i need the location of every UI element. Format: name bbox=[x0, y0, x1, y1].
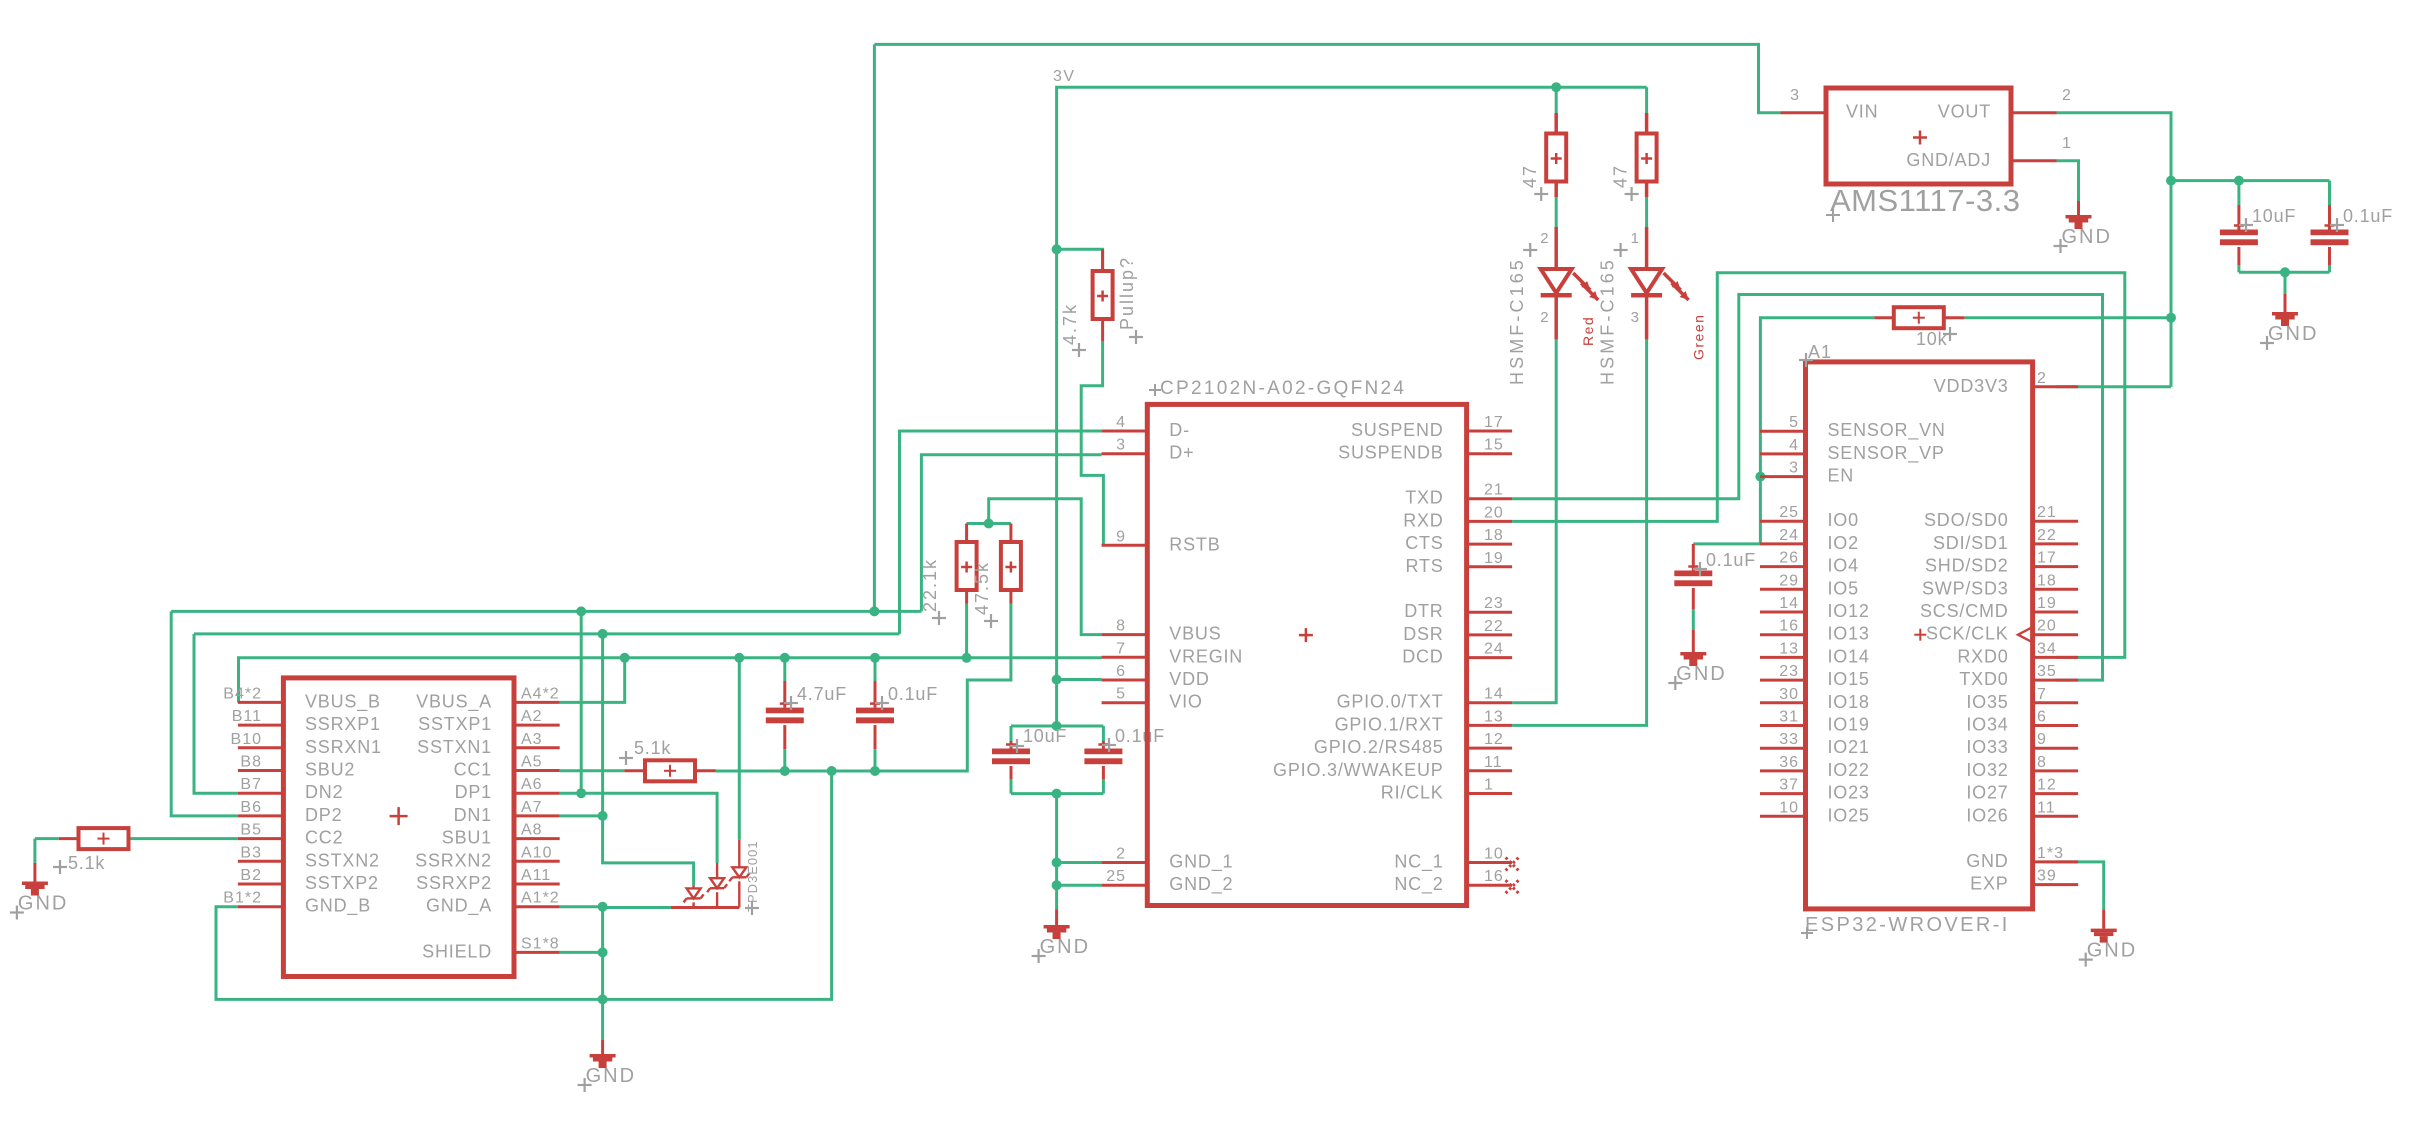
svg-text:SUSPENDB: SUSPENDB bbox=[1338, 443, 1443, 463]
svg-text:GND: GND bbox=[1040, 936, 1090, 958]
svg-text:NC_1: NC_1 bbox=[1394, 852, 1443, 873]
svg-text:31: 31 bbox=[1779, 709, 1799, 726]
svg-text:26: 26 bbox=[1779, 550, 1799, 567]
junction VDD bbox=[1052, 675, 1062, 685]
svg-text:14: 14 bbox=[1779, 595, 1799, 612]
svg-text:RI/CLK: RI/CLK bbox=[1381, 783, 1444, 803]
svg-text:GPIO.0/TXT: GPIO.0/TXT bbox=[1337, 692, 1444, 712]
svg-text:1: 1 bbox=[1484, 777, 1494, 794]
wire cap pair top bar bbox=[1011, 680, 1103, 727]
wire TXD to TXD0 bbox=[1512, 295, 2102, 681]
svg-text:6: 6 bbox=[1116, 663, 1126, 680]
svg-text:25: 25 bbox=[1779, 504, 1799, 521]
svg-text:19: 19 bbox=[2037, 595, 2057, 612]
svg-text:CC2: CC2 bbox=[305, 828, 343, 848]
svg-text:B8: B8 bbox=[240, 754, 262, 771]
svg-text:4.7k: 4.7k bbox=[1060, 303, 1080, 345]
svg-text:5.1k: 5.1k bbox=[68, 853, 105, 873]
svg-text:22: 22 bbox=[2037, 527, 2057, 544]
svg-text:Green: Green bbox=[1691, 314, 1707, 360]
svg-text:13: 13 bbox=[1779, 640, 1799, 657]
svg-text:SSTXP1: SSTXP1 bbox=[418, 714, 492, 734]
svg-text:SWP/SD3: SWP/SD3 bbox=[1922, 578, 2009, 598]
svg-text:10: 10 bbox=[1779, 799, 1799, 816]
svg-text:SHD/SD2: SHD/SD2 bbox=[1925, 556, 2009, 576]
label ESD diode name bbox=[745, 840, 760, 915]
svg-text:DP1: DP1 bbox=[455, 782, 492, 802]
svg-text:A3: A3 bbox=[521, 731, 543, 748]
wire GND_1 bbox=[1057, 861, 1102, 864]
svg-text:3: 3 bbox=[1116, 437, 1126, 454]
IC U2 AMS1117-3.3 bbox=[1781, 87, 2072, 222]
svg-text:DSR: DSR bbox=[1403, 624, 1443, 644]
wire VDD tap bbox=[1057, 678, 1102, 681]
junction cap top bar bbox=[1052, 721, 1062, 731]
svg-text:33: 33 bbox=[1779, 731, 1799, 748]
capacitor C 0.1uF (CP) bbox=[1084, 726, 1165, 794]
svg-text:SENSOR_VN: SENSOR_VN bbox=[1828, 420, 1946, 441]
svg-text:B6: B6 bbox=[240, 799, 262, 816]
svg-text:GPIO.1/RXT: GPIO.1/RXT bbox=[1335, 714, 1444, 734]
svg-text:47: 47 bbox=[1611, 164, 1631, 188]
wire VOUT riser bbox=[2170, 181, 2173, 387]
wire VOUT top bar bbox=[2171, 179, 2330, 182]
svg-text:18: 18 bbox=[1484, 527, 1504, 544]
wire DN1 net to ESD diode D1 bbox=[603, 816, 694, 886]
junction GND_2 bbox=[1052, 880, 1062, 890]
svg-text:5: 5 bbox=[1789, 414, 1799, 431]
wire D- net bbox=[900, 431, 1102, 634]
diode D2 ESD bbox=[707, 863, 727, 908]
wire EN cap drop bbox=[1693, 477, 1760, 544]
svg-text:ESP32-WROVER-I: ESP32-WROVER-I bbox=[1805, 914, 2010, 936]
svg-text:GND: GND bbox=[2087, 940, 2137, 962]
svg-text:21: 21 bbox=[2037, 504, 2057, 521]
capacitor C 0.1uF (EN) bbox=[1674, 544, 1756, 630]
svg-text:A8: A8 bbox=[521, 822, 543, 839]
svg-text:IO32: IO32 bbox=[1966, 760, 2008, 780]
svg-text:16: 16 bbox=[1779, 618, 1799, 635]
svg-text:IO13: IO13 bbox=[1828, 624, 1870, 644]
ground GND (out caps) bbox=[2260, 272, 2318, 350]
svg-text:GND: GND bbox=[2268, 323, 2318, 345]
junction 3V at LED1 column bbox=[1551, 82, 1561, 92]
svg-text:GND_1: GND_1 bbox=[1169, 852, 1233, 873]
wire pullup tap to R 4.7k bbox=[1057, 249, 1103, 271]
wire DP line y611 bbox=[171, 610, 921, 613]
resistor R 5.1k (CC2) bbox=[35, 828, 238, 874]
svg-text:TXD: TXD bbox=[1405, 488, 1443, 508]
wire RXD to RXD0 bbox=[1512, 273, 2125, 658]
svg-text:24: 24 bbox=[1484, 641, 1504, 658]
junction VBUS at C0.1uF bbox=[870, 653, 880, 663]
resistor R 47 (LED1) bbox=[1520, 87, 1566, 201]
svg-text:Red: Red bbox=[1580, 316, 1596, 346]
svg-text:IO22: IO22 bbox=[1828, 760, 1870, 780]
svg-text:HSMF-C165: HSMF-C165 bbox=[1507, 257, 1527, 385]
svg-text:1*3: 1*3 bbox=[2037, 845, 2064, 862]
junction DP1 at pin row bbox=[576, 788, 586, 798]
svg-text:21: 21 bbox=[1484, 482, 1504, 499]
svg-text:IO5: IO5 bbox=[1828, 578, 1859, 598]
junction CC1 line at shield riser bbox=[827, 766, 837, 776]
wire 3V rail bbox=[1057, 87, 1647, 249]
junction VBUS at A-riser bbox=[620, 653, 630, 663]
svg-text:SHIELD: SHIELD bbox=[422, 941, 492, 961]
svg-text:GND: GND bbox=[1966, 851, 2008, 871]
svg-text:20: 20 bbox=[1484, 504, 1504, 521]
svg-text:NC_2: NC_2 bbox=[1394, 874, 1443, 895]
svg-text:B11: B11 bbox=[232, 708, 262, 725]
svg-text:VIO: VIO bbox=[1169, 692, 1202, 712]
svg-text:TXD0: TXD0 bbox=[1959, 669, 2008, 689]
svg-text:29: 29 bbox=[1779, 572, 1799, 589]
junction x874 on y611 bbox=[869, 606, 879, 616]
svg-text:CTS: CTS bbox=[1405, 533, 1443, 553]
svg-text:2: 2 bbox=[1540, 230, 1549, 247]
svg-text:34: 34 bbox=[2037, 640, 2057, 657]
svg-text:IO2: IO2 bbox=[1828, 533, 1859, 553]
svg-text:12: 12 bbox=[2037, 777, 2057, 794]
svg-text:22.1k: 22.1k bbox=[920, 558, 940, 612]
svg-text:6: 6 bbox=[2037, 709, 2047, 726]
wire GND_B bottom line bbox=[216, 771, 832, 999]
svg-text:B7: B7 bbox=[240, 776, 262, 793]
wire SHIELD pin bbox=[560, 951, 603, 954]
svg-text:IO21: IO21 bbox=[1828, 737, 1870, 757]
svg-text:2: 2 bbox=[2062, 87, 2072, 104]
junction VBUS at R22.1k bbox=[962, 653, 972, 663]
wire VOUT to caps bbox=[2057, 113, 2172, 181]
wire R47 to LED2 bbox=[1645, 197, 1648, 227]
svg-text:4: 4 bbox=[1116, 414, 1126, 431]
resistor R 5.1k (CC1) bbox=[560, 738, 716, 781]
svg-text:RXD0: RXD0 bbox=[1957, 646, 2008, 666]
wire 3V riser down to VDD bbox=[1055, 249, 1058, 679]
svg-text:5: 5 bbox=[1116, 686, 1126, 703]
net label 3V bbox=[1053, 68, 1076, 85]
svg-text:VOUT: VOUT bbox=[1938, 102, 1991, 122]
svg-text:2: 2 bbox=[2037, 370, 2047, 387]
svg-text:A2: A2 bbox=[521, 708, 543, 725]
svg-text:DTR: DTR bbox=[1404, 601, 1443, 621]
svg-text:10uF: 10uF bbox=[1023, 726, 1067, 746]
svg-text:D-: D- bbox=[1169, 420, 1190, 440]
svg-text:S1*8: S1*8 bbox=[521, 935, 560, 952]
svg-text:SDI/SD1: SDI/SD1 bbox=[1933, 533, 2009, 553]
svg-text:DN1: DN1 bbox=[454, 805, 492, 825]
svg-text:23: 23 bbox=[1484, 595, 1504, 612]
svg-text:A5: A5 bbox=[521, 754, 543, 771]
svg-text:IO12: IO12 bbox=[1828, 601, 1870, 621]
wire GND_A to rail bbox=[560, 905, 603, 908]
svg-text:VBUS: VBUS bbox=[1169, 624, 1221, 644]
junction bottom gnd line bbox=[598, 994, 608, 1004]
svg-text:A10: A10 bbox=[521, 844, 552, 861]
capacitor C 10uF (CP) bbox=[992, 726, 1067, 794]
svg-text:18: 18 bbox=[2037, 572, 2057, 589]
svg-text:IO27: IO27 bbox=[1966, 783, 2008, 803]
resistor R 4.7k (Pullup?) bbox=[1060, 249, 1143, 357]
junction VBUS at D3 bbox=[734, 653, 744, 663]
wire out caps bottom bar bbox=[2239, 271, 2330, 274]
svg-text:A1*2: A1*2 bbox=[521, 890, 560, 907]
svg-text:11: 11 bbox=[1484, 754, 1503, 771]
capacitor C 0.1uF (USB) bbox=[856, 658, 938, 771]
IC A1 ESP32-WROVER-I bbox=[1760, 342, 2078, 939]
capacitor C 10uF (out) bbox=[2220, 181, 2296, 273]
ground GND (ESP32) bbox=[2079, 910, 2137, 967]
svg-text:3: 3 bbox=[1789, 460, 1799, 477]
svg-text:20: 20 bbox=[2037, 618, 2057, 635]
junction DN1 riser bbox=[598, 629, 608, 639]
junction 3V pullup tap bbox=[1052, 244, 1062, 254]
svg-text:30: 30 bbox=[1779, 686, 1799, 703]
LED LED2 HSMF-C165 bbox=[1598, 227, 1707, 385]
LED LED1 HSMF-C165 bbox=[1507, 227, 1598, 385]
wire R22k/R47k top bar bbox=[967, 499, 1102, 635]
svg-text:A11: A11 bbox=[521, 867, 551, 884]
svg-text:3: 3 bbox=[1631, 309, 1640, 326]
svg-text:SCS/CMD: SCS/CMD bbox=[1920, 601, 2009, 621]
svg-text:36: 36 bbox=[1779, 754, 1799, 771]
svg-text:8: 8 bbox=[2037, 754, 2047, 771]
svg-text:2: 2 bbox=[1116, 846, 1126, 863]
svg-text:14: 14 bbox=[1484, 686, 1504, 703]
svg-text:IO26: IO26 bbox=[1966, 805, 2008, 825]
svg-text:SSTXN2: SSTXN2 bbox=[305, 850, 380, 870]
svg-text:VIN: VIN bbox=[1846, 102, 1878, 122]
svg-text:EXP: EXP bbox=[1970, 874, 2008, 894]
junction EN bbox=[1755, 472, 1765, 482]
svg-text:24: 24 bbox=[1779, 527, 1799, 544]
svg-text:1: 1 bbox=[1631, 230, 1640, 247]
svg-text:DN2: DN2 bbox=[305, 782, 343, 802]
svg-text:1: 1 bbox=[2062, 135, 2072, 152]
svg-text:IO19: IO19 bbox=[1828, 715, 1870, 735]
svg-text:IO15: IO15 bbox=[1828, 669, 1870, 689]
svg-text:2: 2 bbox=[1540, 309, 1549, 326]
wire gnd stem CP bbox=[1055, 794, 1058, 910]
svg-text:IO35: IO35 bbox=[1966, 692, 2008, 712]
svg-text:SUSPEND: SUSPEND bbox=[1351, 420, 1444, 440]
junction CC1 line at C0.1uF bottom bbox=[870, 766, 880, 776]
wire VBUS main line bbox=[239, 658, 1102, 703]
junction CC1 line at C4.7uF bottom bbox=[780, 766, 790, 776]
wire shield riser bbox=[601, 907, 604, 1000]
svg-text:16: 16 bbox=[1484, 868, 1504, 885]
svg-text:VDD3V3: VDD3V3 bbox=[1934, 376, 2009, 396]
junction DP1 riser bbox=[576, 606, 586, 616]
junction SHIELD bbox=[598, 947, 608, 957]
svg-text:IO14: IO14 bbox=[1828, 646, 1870, 666]
ground GND (EN cap) bbox=[1668, 630, 1726, 690]
svg-text:GPIO.2/RS485: GPIO.2/RS485 bbox=[1314, 737, 1444, 757]
wire 10k to VOUT riser bbox=[1965, 316, 2171, 319]
ground GND (USB bottom) bbox=[578, 999, 636, 1092]
svg-text:B4*2: B4*2 bbox=[223, 685, 262, 702]
svg-text:SENSOR_VP: SENSOR_VP bbox=[1828, 443, 1945, 464]
USB-C connector J1 bbox=[223, 678, 559, 977]
IC U1 CP2102N-A02-GQFN24 bbox=[1102, 378, 1519, 906]
svg-text:GPIO.3/WWAKEUP: GPIO.3/WWAKEUP bbox=[1273, 760, 1444, 780]
wire DP1 riser bbox=[580, 611, 583, 793]
ground GND (CP2102) bbox=[1032, 910, 1090, 964]
svg-text:19: 19 bbox=[1484, 550, 1504, 567]
svg-text:B5: B5 bbox=[240, 822, 262, 839]
capacitor C 0.1uF (out) bbox=[2311, 181, 2394, 273]
svg-text:RSTB: RSTB bbox=[1169, 534, 1220, 554]
svg-text:HSMF-C165: HSMF-C165 bbox=[1598, 257, 1618, 385]
svg-text:8: 8 bbox=[1116, 618, 1126, 635]
svg-text:SSRXP1: SSRXP1 bbox=[305, 714, 381, 734]
svg-text:17: 17 bbox=[2037, 550, 2057, 567]
resistor R 10k bbox=[1874, 307, 1964, 349]
wire ESD rail green bbox=[603, 906, 671, 909]
svg-text:7: 7 bbox=[2037, 686, 2047, 703]
svg-text:A4*2: A4*2 bbox=[521, 685, 560, 702]
svg-text:3: 3 bbox=[1790, 87, 1800, 104]
svg-text:3V: 3V bbox=[1053, 68, 1076, 85]
svg-text:VBUS_B: VBUS_B bbox=[305, 691, 381, 712]
svg-text:5.1k: 5.1k bbox=[634, 738, 671, 758]
wire LED1 to CP2102 bbox=[1512, 339, 1556, 702]
svg-text:SCK/CLK: SCK/CLK bbox=[1926, 624, 2009, 644]
junction cap bottom bar bbox=[1052, 789, 1062, 799]
wire LED2 to CP2102 bbox=[1512, 339, 1647, 725]
svg-text:GND_B: GND_B bbox=[305, 896, 371, 917]
svg-text:GND_2: GND_2 bbox=[1169, 874, 1233, 895]
svg-text:10: 10 bbox=[1484, 846, 1504, 863]
wire DP1 net to ESD diode D2 bbox=[560, 793, 717, 863]
svg-text:0.1uF: 0.1uF bbox=[888, 684, 938, 704]
svg-text:B10: B10 bbox=[231, 731, 262, 748]
svg-text:D+: D+ bbox=[1169, 443, 1194, 463]
wire R4.7k to RSTB bbox=[1081, 341, 1103, 545]
svg-text:SDO/SD0: SDO/SD0 bbox=[1924, 510, 2009, 530]
wire D3 top riser to VBUS bbox=[738, 658, 741, 840]
wire GND_2 bbox=[1057, 884, 1102, 887]
ground GND (CC2) bbox=[10, 839, 68, 920]
svg-text:RXD: RXD bbox=[1403, 510, 1443, 530]
diode D3 ESD bbox=[729, 840, 749, 908]
wire VIN top from USB area to AMS1117 input bbox=[874, 44, 1780, 112]
svg-text:A7: A7 bbox=[521, 799, 543, 816]
svg-text:GND: GND bbox=[586, 1065, 636, 1087]
svg-text:IO33: IO33 bbox=[1966, 737, 2008, 757]
junction at 10uF out bbox=[2234, 176, 2244, 186]
svg-text:VBUS_A: VBUS_A bbox=[416, 691, 492, 712]
svg-text:SSTXP2: SSTXP2 bbox=[305, 873, 379, 893]
junction VBUS at C4.7uF bbox=[780, 653, 790, 663]
svg-text:7: 7 bbox=[1116, 640, 1126, 657]
wire D+ net bbox=[921, 455, 1101, 612]
wire 10k to EN bbox=[1760, 318, 1874, 477]
junction GND_1 bbox=[1052, 858, 1062, 868]
svg-text:SBU2: SBU2 bbox=[305, 760, 355, 780]
ground GND (AMS) bbox=[2054, 201, 2112, 253]
svg-text:RTS: RTS bbox=[1406, 556, 1444, 576]
svg-text:SBU1: SBU1 bbox=[442, 828, 492, 848]
svg-text:VDD: VDD bbox=[1169, 669, 1209, 689]
svg-text:AMS1117-3.3: AMS1117-3.3 bbox=[1830, 183, 2020, 218]
svg-text:10uF: 10uF bbox=[2252, 206, 2296, 226]
svg-text:CC1: CC1 bbox=[454, 760, 492, 780]
svg-text:15: 15 bbox=[1484, 437, 1504, 454]
svg-text:EN: EN bbox=[1828, 466, 1855, 486]
svg-text:IO18: IO18 bbox=[1828, 692, 1870, 712]
svg-text:9: 9 bbox=[1116, 528, 1126, 545]
svg-text:35: 35 bbox=[2037, 663, 2057, 680]
wire VDD3V3 bbox=[2056, 385, 2171, 388]
svg-text:25: 25 bbox=[1106, 868, 1126, 885]
svg-text:VREGIN: VREGIN bbox=[1169, 646, 1243, 666]
junction VOUT riser at 10k bbox=[2166, 313, 2176, 323]
junction DN1 at pin row bbox=[598, 811, 608, 821]
svg-text:GND/ADJ: GND/ADJ bbox=[1906, 150, 1991, 170]
svg-text:0.1uF: 0.1uF bbox=[1706, 550, 1756, 570]
junction out caps gnd bbox=[2280, 267, 2290, 277]
svg-text:GND: GND bbox=[18, 893, 68, 915]
junction GND_A bbox=[598, 902, 608, 912]
svg-text:SSRXP2: SSRXP2 bbox=[416, 873, 492, 893]
svg-text:IO34: IO34 bbox=[1966, 715, 2008, 735]
svg-text:SSRXN1: SSRXN1 bbox=[305, 737, 382, 757]
wire R47.5k bottom jog to CC1 line bbox=[716, 604, 1011, 772]
svg-text:0.1uF: 0.1uF bbox=[1115, 726, 1165, 746]
svg-text:IO4: IO4 bbox=[1828, 556, 1859, 576]
svg-text:17: 17 bbox=[1484, 414, 1504, 431]
svg-text:10k: 10k bbox=[1916, 329, 1948, 349]
junction VOUT corner bbox=[2166, 176, 2176, 186]
svg-text:B2: B2 bbox=[240, 867, 262, 884]
wire DN1 riser bbox=[601, 634, 604, 816]
svg-text:DP2: DP2 bbox=[305, 805, 342, 825]
svg-text:22: 22 bbox=[1484, 618, 1504, 635]
svg-text:9: 9 bbox=[2037, 731, 2047, 748]
svg-text:A6: A6 bbox=[521, 776, 543, 793]
capacitor C 4.7uF bbox=[766, 658, 847, 771]
wire ESD rail red bbox=[671, 906, 739, 909]
svg-text:12: 12 bbox=[1484, 731, 1504, 748]
svg-text:GND_A: GND_A bbox=[426, 896, 492, 917]
wire VBUS_A riser bbox=[560, 658, 625, 703]
diode D1 ESD bbox=[684, 886, 704, 908]
svg-text:39: 39 bbox=[2037, 868, 2057, 885]
wire R47 to LED1 bbox=[1555, 197, 1558, 227]
svg-text:23: 23 bbox=[1779, 663, 1799, 680]
svg-text:47.5k: 47.5k bbox=[972, 561, 992, 615]
wire vertical x874 down to D+/DP junction bbox=[873, 44, 876, 611]
resistor R 47 (LED2) bbox=[1611, 87, 1657, 201]
svg-text:IO23: IO23 bbox=[1828, 783, 1870, 803]
svg-text:4.7uF: 4.7uF bbox=[797, 684, 847, 704]
svg-text:47: 47 bbox=[1520, 164, 1540, 188]
resistor R 47.5k bbox=[972, 524, 1021, 629]
svg-text:4: 4 bbox=[1789, 437, 1799, 454]
wire ESP GND bbox=[2057, 862, 2104, 910]
wire cap pair bottom bar bbox=[1011, 792, 1103, 795]
svg-text:Pullup?: Pullup? bbox=[1117, 256, 1137, 330]
svg-text:0.1uF: 0.1uF bbox=[2343, 206, 2393, 226]
svg-text:IO25: IO25 bbox=[1828, 805, 1870, 825]
wire R22.1k bottom bbox=[965, 604, 968, 658]
svg-text:11: 11 bbox=[2037, 799, 2056, 816]
svg-text:13: 13 bbox=[1484, 708, 1504, 725]
wire DN line y634 bbox=[194, 632, 900, 635]
svg-text:SSTXN1: SSTXN1 bbox=[417, 737, 492, 757]
svg-text:37: 37 bbox=[1779, 777, 1799, 794]
